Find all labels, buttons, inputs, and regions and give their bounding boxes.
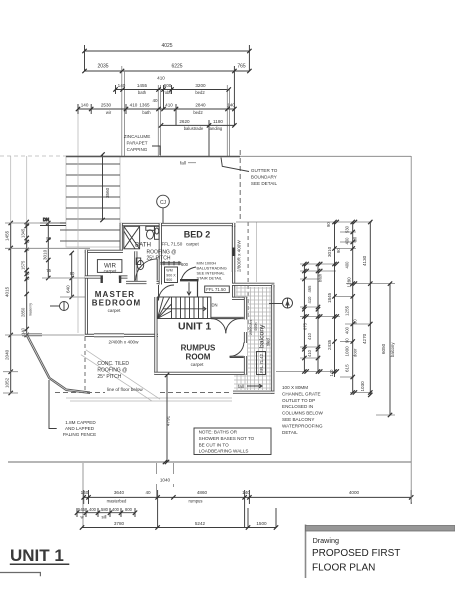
svg-text:1000: 1000	[345, 346, 350, 357]
site boundary right	[410, 156, 412, 462]
svg-text:2435: 2435	[327, 339, 332, 350]
svg-text:1365: 1365	[139, 103, 150, 108]
right chain A	[334, 222, 336, 377]
left extension rows	[3, 223, 90, 393]
svg-text:NOTE: BATHS OR: NOTE: BATHS OR	[199, 430, 238, 435]
corridor door arc	[159, 285, 175, 301]
dashed boundary gutter line	[239, 150, 241, 222]
svg-text:OUTLET TO DP: OUTLET TO DP	[282, 398, 315, 403]
top dim row 140/2530/410/1365/40/410/2840/140	[78, 104, 234, 125]
shower	[124, 226, 140, 249]
4791 dim	[165, 373, 171, 464]
svg-text:600: 600	[164, 83, 172, 88]
svg-text:door: door	[353, 348, 358, 357]
svg-text:bed2: bed2	[195, 90, 205, 95]
wir door jambs	[100, 276, 102, 284]
svg-text:4270: 4270	[362, 333, 367, 344]
svg-text:tiled: tiled	[266, 338, 271, 346]
roof below hatch (top-left)	[60, 156, 120, 247]
svg-text:400: 400	[345, 261, 350, 269]
svg-text:landing: landing	[209, 126, 223, 131]
dashed roof boundary	[84, 337, 86, 392]
balcony post	[271, 285, 274, 288]
master south window	[94, 333, 124, 337]
svg-text:40: 40	[152, 98, 158, 103]
svg-text:FFL 71.50: FFL 71.50	[206, 287, 226, 292]
svg-text:3010: 3010	[42, 249, 47, 260]
stair hall west / rumpus west wall	[154, 297, 157, 375]
landing balustrade at bed2	[160, 261, 181, 265]
min 1000h balustrading note	[182, 261, 227, 296]
svg-text:UNIT 1: UNIT 1	[178, 321, 211, 333]
svg-text:masonry: masonry	[29, 303, 33, 316]
svg-text:40: 40	[145, 490, 151, 495]
gutter to boundary note	[221, 158, 278, 187]
svg-text:1500: 1500	[256, 521, 267, 526]
svg-text:25° PITCH: 25° PITCH	[97, 374, 121, 380]
left dim chain 2	[21, 220, 33, 337]
ffl 71.50 box	[205, 286, 230, 293]
hall/rumpus east wall	[244, 297, 247, 320]
right ticks	[302, 220, 392, 417]
svg-text:CONC. TILED: CONC. TILED	[97, 361, 129, 367]
svg-text:robe: robe	[163, 90, 172, 95]
svg-text:100 X 80MM: 100 X 80MM	[282, 385, 308, 390]
svg-text:masterbed: masterbed	[107, 499, 127, 504]
svg-text:wir: wir	[106, 110, 112, 115]
entry double doors	[211, 317, 244, 333]
svg-text:4791: 4791	[166, 415, 171, 426]
svg-text:SHOWER BASES NOT TO: SHOWER BASES NOT TO	[199, 436, 255, 441]
right chain E	[303, 264, 305, 372]
svg-text:410: 410	[307, 349, 312, 357]
svg-text:FLOOR PLAN: FLOOR PLAN	[312, 563, 375, 574]
svg-text:ZINCALUME: ZINCALUME	[124, 134, 151, 139]
svg-text:carpet: carpet	[104, 268, 117, 273]
svg-text:6225: 6225	[171, 64, 182, 70]
svg-text:UNIT 1: UNIT 1	[10, 546, 64, 565]
svg-text:carpet: carpet	[186, 242, 199, 247]
svg-text:CJ: CJ	[160, 200, 167, 206]
wc lower	[136, 258, 144, 270]
svg-text:400: 400	[89, 507, 97, 512]
site boundary top line	[0, 155, 411, 157]
svg-text:GUTTER TO: GUTTER TO	[251, 168, 278, 173]
svg-text:balcony: balcony	[259, 324, 266, 348]
svg-text:900: 900	[166, 278, 172, 282]
svg-text:bath: bath	[138, 90, 147, 95]
svg-text:675: 675	[303, 322, 308, 330]
bottom row B	[77, 508, 135, 517]
cj control joint symbol	[157, 195, 170, 223]
landing balustrade thick	[180, 279, 199, 281]
toilet top	[146, 226, 155, 239]
svg-text:1030: 1030	[360, 381, 365, 392]
svg-text:3010: 3010	[327, 246, 332, 257]
svg-text:580: 580	[101, 507, 109, 512]
svg-text:line of floor below: line of floor below	[107, 387, 143, 392]
svg-text:BE CUT IN TO: BE CUT IN TO	[199, 442, 230, 447]
top dim row 4025	[85, 45, 250, 71]
svg-text:2620: 2620	[179, 119, 190, 124]
svg-text:WM: WM	[166, 269, 172, 273]
svg-text:BEDROOM: BEDROOM	[92, 299, 141, 308]
channel grate note	[282, 385, 324, 435]
svg-text:400h: 400h	[254, 323, 258, 331]
balcony tile grid	[234, 286, 271, 390]
conc tiled roofing note	[97, 361, 129, 380]
top dim row 2035/6225/765	[85, 70, 250, 72]
svg-text:3780: 3780	[114, 521, 125, 526]
svg-text:BATH: BATH	[135, 242, 151, 249]
svg-text:140: 140	[118, 83, 126, 88]
wall bed2 east lower	[232, 272, 235, 286]
svg-text:WATERPROOFING: WATERPROOFING	[282, 423, 323, 428]
svg-text:ROOM: ROOM	[186, 353, 211, 362]
svg-text:rumpus: rumpus	[189, 499, 203, 504]
svg-text:410: 410	[307, 296, 312, 304]
svg-text:1255: 1255	[345, 305, 350, 316]
svg-text:615: 615	[345, 364, 350, 372]
svg-text:90: 90	[46, 236, 51, 241]
svg-text:765: 765	[237, 64, 246, 70]
svg-text:STAIR DETAIL: STAIR DETAIL	[197, 276, 223, 281]
vanity bath	[155, 226, 160, 239]
small dn dim at roof bottom-left	[40, 217, 66, 226]
svg-text:bath: bath	[142, 110, 151, 115]
svg-text:balcony: balcony	[390, 342, 395, 357]
fence leader + note	[49, 380, 96, 437]
line of floor below	[55, 387, 232, 401]
svg-text:2040: 2040	[5, 349, 10, 360]
svg-text:2/800R x 400W: 2/800R x 400W	[237, 240, 242, 272]
svg-text:2035: 2035	[97, 64, 108, 70]
bottom row C	[82, 508, 276, 528]
bed2 west wall	[159, 223, 162, 285]
ext rows right	[236, 222, 395, 415]
svg-text:BOUNDARY: BOUNDARY	[251, 175, 277, 180]
site boundary bottom	[8, 461, 411, 463]
svg-text:COLUMNS BELOW: COLUMNS BELOW	[282, 411, 324, 416]
svg-text:1345: 1345	[21, 228, 26, 238]
svg-text:410: 410	[165, 103, 173, 108]
svg-text:140: 140	[81, 103, 89, 108]
svg-text:2530: 2530	[101, 103, 112, 108]
landing east wall	[232, 284, 235, 300]
svg-text:2850: 2850	[21, 307, 26, 317]
svg-text:1455: 1455	[5, 230, 10, 241]
wall wir nook divider	[134, 251, 137, 282]
ffl 71.42 box rotated	[257, 352, 266, 375]
svg-text:400: 400	[345, 326, 350, 334]
corridor south wall	[126, 281, 147, 284]
bath door arc	[136, 259, 158, 281]
svg-text:PALING FENCE: PALING FENCE	[63, 432, 96, 437]
svg-text:140: 140	[227, 103, 235, 108]
wall bed2 east upper	[232, 223, 235, 227]
unit1 title	[0, 546, 69, 576]
dp symbol right	[269, 298, 293, 309]
4000 row extension	[410, 462, 412, 502]
svg-text:FFL 71.50: FFL 71.50	[162, 242, 183, 247]
right chain D	[389, 284, 391, 415]
svg-text:410: 410	[130, 103, 138, 108]
svg-text:ENCLOSED IN: ENCLOSED IN	[282, 404, 313, 409]
dim 3560 over roof hatch	[100, 152, 110, 222]
svg-text:2840: 2840	[195, 103, 206, 108]
west wall master	[85, 250, 88, 337]
svg-text:1180: 1180	[213, 119, 223, 124]
svg-text:1280: 1280	[347, 277, 352, 288]
svg-text:AND LAPPED: AND LAPPED	[65, 426, 95, 431]
right chain C	[369, 222, 371, 395]
svg-text:sill: sill	[102, 515, 107, 520]
svg-text:140: 140	[242, 490, 250, 495]
TITLE BLOCK	[306, 525, 455, 579]
svg-text:4000: 4000	[349, 490, 360, 495]
svg-text:140: 140	[329, 369, 334, 377]
svg-text:410: 410	[307, 332, 312, 340]
svg-text:4130: 4130	[362, 255, 367, 266]
svg-text:465: 465	[307, 285, 312, 293]
wir south wall segs	[85, 275, 103, 278]
svg-text:1052: 1052	[5, 377, 10, 388]
left dim chain 1455/4015/2040/1052	[5, 221, 13, 395]
svg-text:600: 600	[181, 262, 189, 267]
svg-text:40: 40	[25, 276, 30, 281]
right labels	[303, 222, 396, 392]
svg-text:LOADBEARING WALLS: LOADBEARING WALLS	[199, 449, 249, 454]
svg-text:carpet: carpet	[108, 308, 121, 313]
master south wall	[85, 334, 158, 337]
top dim row 2620/1180	[161, 120, 234, 156]
svg-text:bath: bath	[318, 273, 323, 282]
svg-text:2/50CA x: 2/50CA x	[249, 319, 253, 335]
svg-text:3560: 3560	[105, 187, 110, 198]
svg-text:4015: 4015	[5, 286, 10, 297]
svg-text:4860: 4860	[197, 490, 208, 495]
wm cupboard	[165, 267, 178, 283]
svg-text:DN: DN	[212, 303, 218, 308]
fence polyline	[26, 334, 90, 393]
svg-text:400: 400	[112, 507, 120, 512]
svg-text:90: 90	[345, 338, 350, 343]
roof below diagonals	[81, 350, 160, 401]
svg-text:carpet: carpet	[191, 362, 204, 367]
svg-text:400: 400	[345, 237, 350, 245]
balcony east wall	[271, 285, 274, 394]
wir label	[97, 260, 122, 274]
right chain F	[317, 264, 319, 372]
parapet top wall	[66, 156, 240, 158]
svg-text:2/400h x 400w: 2/400h x 400w	[109, 340, 140, 345]
svg-text:40: 40	[25, 247, 30, 252]
svg-text:90: 90	[70, 271, 75, 276]
svg-text:1575: 1575	[21, 260, 26, 270]
svg-text:1.8M CAPPED: 1.8M CAPPED	[65, 420, 96, 425]
svg-text:SEE BALCONY: SEE BALCONY	[282, 417, 314, 422]
left dim chain 3	[42, 221, 51, 280]
svg-text:PARAPET: PARAPET	[126, 141, 147, 146]
svg-text:90: 90	[25, 239, 30, 244]
svg-text:1455: 1455	[137, 83, 148, 88]
svg-text:25° PITCH: 25° PITCH	[147, 256, 171, 262]
balcony south wall	[233, 391, 274, 394]
svg-text:fall: fall	[238, 384, 244, 389]
bed2 window east	[232, 226, 235, 272]
svg-text:CAPPING: CAPPING	[127, 147, 148, 152]
svg-text:DN: DN	[43, 217, 49, 222]
svg-text:4025: 4025	[161, 43, 172, 49]
svg-text:fall: fall	[180, 161, 186, 166]
top dim row 140/1455/410/600/3200	[116, 85, 229, 94]
wir top wall	[85, 250, 123, 253]
svg-text:bed2: bed2	[193, 110, 203, 115]
svg-text:PROPOSED FIRST: PROPOSED FIRST	[312, 548, 400, 559]
svg-text:5242: 5242	[195, 521, 206, 526]
svg-text:6050: 6050	[381, 343, 386, 354]
svg-text:800: 800	[125, 507, 133, 512]
bath west wall	[120, 223, 123, 253]
svg-text:balustrade: balustrade	[184, 126, 204, 131]
rumpus south wall	[154, 372, 247, 375]
svg-text:3200: 3200	[195, 83, 206, 88]
svg-text:90: 90	[353, 319, 358, 324]
svg-text:140: 140	[81, 490, 89, 495]
svg-text:90: 90	[326, 222, 331, 227]
svg-text:1040: 1040	[160, 478, 171, 483]
balcony north wall	[232, 283, 274, 286]
svg-text:410: 410	[157, 76, 165, 81]
svg-text:SEE DETAIL: SEE DETAIL	[251, 181, 278, 186]
svg-text:640: 640	[66, 285, 71, 293]
svg-text:900 X: 900 X	[166, 273, 176, 277]
stair direction line	[163, 308, 206, 310]
svg-text:1845: 1845	[327, 292, 332, 303]
wall top (bed2/bath north)	[120, 223, 236, 226]
svg-text:DETAIL: DETAIL	[282, 430, 298, 435]
svg-text:w: w	[80, 515, 84, 520]
wall jog landing-hall	[232, 297, 247, 300]
1040 dim	[154, 460, 175, 498]
svg-text:CHANNEL GRATE: CHANNEL GRATE	[282, 391, 321, 396]
svg-text:RUMPUS: RUMPUS	[181, 344, 216, 353]
svg-text:FFL 71.42: FFL 71.42	[259, 353, 264, 373]
note box baths	[194, 428, 271, 455]
svg-text:545: 545	[78, 507, 86, 512]
right chain B	[352, 222, 354, 393]
dp symbol left	[50, 302, 69, 311]
svg-text:ROOFING @: ROOFING @	[97, 368, 127, 374]
svg-text:BED 2: BED 2	[184, 230, 211, 240]
dashed window line landing	[247, 222, 249, 330]
svg-text:75: 75	[46, 268, 51, 273]
svg-text:sill: sill	[353, 237, 358, 242]
svg-text:90: 90	[336, 248, 341, 253]
svg-text:3640: 3640	[114, 490, 125, 495]
zincalume parapet capping note	[124, 134, 160, 155]
balcony door arc	[230, 343, 244, 358]
left dim chain 4	[66, 251, 75, 299]
svg-text:Drawing: Drawing	[313, 536, 339, 545]
svg-text:530: 530	[345, 225, 350, 233]
bottom row A	[83, 463, 411, 528]
STAIRS	[157, 297, 211, 319]
fall label balcony	[238, 384, 262, 389]
